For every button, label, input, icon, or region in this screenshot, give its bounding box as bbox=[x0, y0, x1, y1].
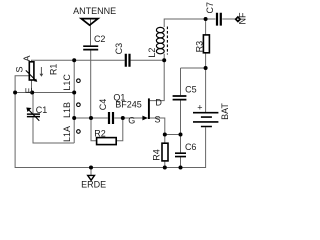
svg-text:S: S bbox=[14, 66, 24, 72]
svg-text:BAT: BAT bbox=[220, 103, 230, 120]
svg-text:R3: R3 bbox=[195, 41, 205, 53]
svg-text:G: G bbox=[128, 115, 135, 125]
svg-text:C3: C3 bbox=[114, 43, 124, 55]
svg-text:S: S bbox=[154, 114, 160, 124]
svg-text:E: E bbox=[24, 87, 34, 93]
svg-text:C6: C6 bbox=[185, 142, 197, 152]
svg-text:C1: C1 bbox=[36, 105, 48, 115]
svg-text:L2: L2 bbox=[147, 48, 157, 58]
svg-text:NF: NF bbox=[238, 12, 248, 24]
svg-text:C7: C7 bbox=[205, 2, 215, 14]
svg-text:C2: C2 bbox=[94, 34, 106, 44]
svg-text:C5: C5 bbox=[185, 85, 197, 95]
svg-text:C4: C4 bbox=[98, 99, 108, 111]
svg-text:D: D bbox=[155, 98, 162, 108]
svg-text:L1C: L1C bbox=[62, 74, 72, 91]
svg-text:R2: R2 bbox=[94, 128, 106, 138]
svg-text:+: + bbox=[197, 102, 202, 112]
svg-text:A: A bbox=[22, 55, 32, 61]
svg-text:ERDE: ERDE bbox=[81, 179, 106, 189]
svg-text:R4: R4 bbox=[151, 149, 161, 161]
svg-text:ANTENNE: ANTENNE bbox=[73, 6, 116, 16]
svg-text:L1A: L1A bbox=[62, 126, 72, 142]
svg-text:R1: R1 bbox=[49, 64, 59, 76]
svg-text:L1B: L1B bbox=[62, 102, 72, 118]
svg-text:BF245: BF245 bbox=[115, 99, 142, 109]
